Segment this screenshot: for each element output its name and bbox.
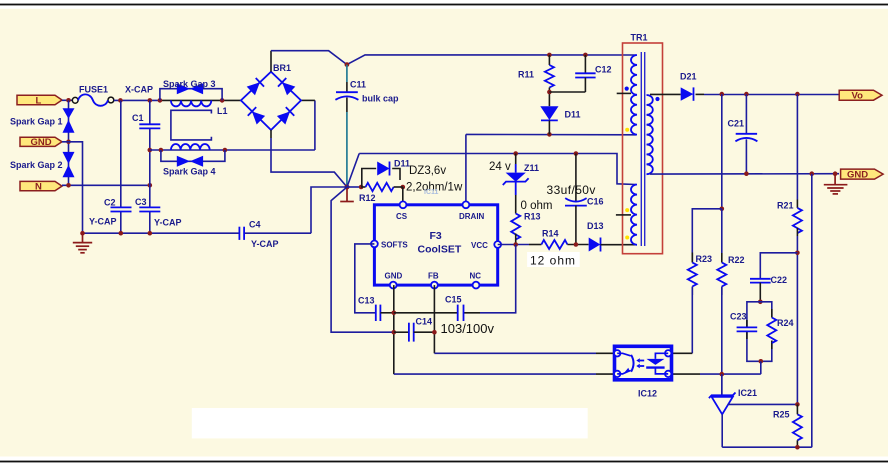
node C12 top: [583, 53, 588, 58]
wire aux rail: [359, 154, 636, 185]
svg-text:Z11: Z11: [524, 163, 539, 173]
TR1 core: [641, 52, 644, 246]
node Vo R21: [795, 92, 800, 97]
ground symbol output: [824, 174, 848, 194]
inductor L1 bottom winding: [171, 144, 210, 150]
diode D11 top: [540, 106, 558, 134]
wire block to opto row: [760, 361, 762, 374]
svg-text:IC21: IC21: [738, 388, 757, 398]
svg-text:R12: R12: [359, 193, 376, 203]
node R11 top: [547, 53, 552, 58]
svg-text:GND: GND: [31, 137, 52, 148]
flag GND (input): [20, 137, 62, 148]
TR1 aux pin dots: [625, 208, 629, 239]
resistor R23: [672, 253, 697, 354]
svg-text:Spark Gap 1: Spark Gap 1: [10, 117, 63, 127]
wire FB to opto row: [434, 352, 614, 354]
node ref-R25: [795, 402, 800, 407]
wire SOFTS loop: [355, 244, 376, 313]
resistor R12: [361, 183, 403, 191]
node D11 bottom: [547, 132, 552, 137]
fuse F1 terminals: [72, 97, 78, 103]
spark gap 4: [177, 156, 203, 167]
svg-text:L1: L1: [217, 106, 228, 116]
node FB-C14: [432, 330, 437, 335]
node N-sparkgap: [66, 183, 71, 188]
transformer TR1 box: [623, 43, 663, 254]
node C1 top: [148, 98, 153, 103]
svg-text:D11: D11: [565, 110, 581, 120]
svg-text:C15: C15: [445, 295, 462, 305]
capacitor C15: [458, 305, 464, 321]
node fuse out: [118, 98, 123, 103]
white content box: [192, 408, 588, 438]
svg-text:CoolSET: CoolSET: [418, 244, 462, 256]
svg-text:CS: CS: [396, 212, 408, 221]
svg-text:24 v: 24 v: [489, 161, 511, 173]
node mosfet star: [345, 185, 350, 190]
capacitor C14: [394, 323, 435, 342]
svg-text:D13: D13: [587, 221, 604, 231]
wire opto bottom row: [672, 373, 761, 375]
node choke top right: [220, 98, 225, 103]
optocoupler IC12: [614, 346, 672, 380]
wire C11 lower lead: [346, 98, 348, 188]
node Vo C21: [744, 92, 749, 97]
svg-text:Spark Gap 2: Spark Gap 2: [10, 160, 63, 170]
wire GND flag link: [62, 142, 83, 233]
svg-text:C12: C12: [595, 65, 612, 75]
wire choke row 150: [150, 149, 315, 151]
svg-text:GND: GND: [385, 272, 403, 281]
svg-text:Spark Gap 3: Spark Gap 3: [163, 79, 216, 89]
svg-text:N: N: [35, 182, 42, 193]
wire fb column: [721, 94, 723, 209]
wire GND pin column: [393, 285, 395, 374]
bridge rectifier BR1: [241, 72, 301, 130]
svg-text:GND: GND: [847, 170, 868, 181]
node sg4 loop left: [159, 148, 164, 153]
resistor R14: [529, 240, 589, 249]
wire L row: [62, 99, 72, 101]
svg-text:C13: C13: [358, 296, 375, 306]
svg-text:C21: C21: [728, 119, 745, 129]
diode D13: [589, 238, 636, 252]
spark gap 3: [177, 83, 203, 94]
wire secondary top: [650, 93, 681, 95]
node ground row: gnd col: [80, 231, 85, 236]
svg-text:R21: R21: [777, 201, 794, 211]
node GND rail drop: [810, 171, 815, 176]
wire fuse to choke: [114, 99, 161, 101]
wire FB pin column: [433, 285, 435, 353]
node R21-C22: [795, 251, 800, 256]
node bottom rail R25: [795, 445, 800, 450]
op-amp U1 : F3 CoolSET controller block: [371, 201, 501, 288]
resistor R25: [793, 404, 802, 447]
node VCC-R13: [513, 242, 518, 247]
node IC21 top: [720, 372, 725, 377]
wire star to C14 branch: [331, 187, 394, 332]
svg-text:bulk cap: bulk cap: [362, 94, 399, 104]
resistor R11: [545, 55, 554, 106]
capacitor C23: [737, 320, 758, 339]
svg-text:103/100v: 103/100v: [441, 321, 495, 336]
wire bottom rail: [722, 446, 812, 448]
svg-text:Y-CAP: Y-CAP: [251, 239, 279, 249]
node C16 top: [574, 151, 579, 156]
wire right drop column: [811, 174, 813, 448]
wire star to drain rail: [347, 154, 359, 188]
node GND-C13: [392, 311, 397, 316]
svg-text:R24: R24: [777, 318, 794, 328]
node GND rail symbol: [833, 171, 838, 176]
node sg4 loop right: [223, 148, 228, 153]
resistor R21: [793, 94, 802, 404]
svg-text:DRAIN: DRAIN: [459, 212, 485, 221]
svg-text:BR1: BR1: [273, 63, 291, 73]
flag GND output: [841, 169, 884, 180]
TR1 secondary winding: [647, 95, 653, 174]
svg-text:Spark Gap 4: Spark Gap 4: [163, 167, 216, 177]
resistor R22: [717, 209, 726, 395]
inductor L1 top winding: [171, 100, 211, 106]
svg-text:0 ohm: 0 ohm: [521, 200, 553, 212]
svg-text:C3: C3: [135, 197, 147, 207]
TR1 primary tap stub: [617, 92, 631, 94]
svg-text:12 ohm: 12 ohm: [530, 254, 576, 268]
wire R23 branch: [692, 209, 722, 263]
shunt regulator IC21: [709, 374, 736, 447]
capacitor C21: [735, 94, 757, 174]
capacitor C1: [139, 124, 160, 128]
svg-text:C2: C2: [104, 198, 116, 208]
capacitor C22: [750, 279, 771, 302]
svg-text:R13: R13: [524, 212, 541, 222]
wire VCC row: [498, 244, 529, 246]
svg-text:DZ3,6v: DZ3,6v: [409, 165, 446, 177]
svg-text:Vo: Vo: [852, 91, 864, 102]
flag L: [17, 95, 62, 106]
node GND-C14: [392, 330, 397, 335]
node L-sparkgap junction: [66, 98, 71, 103]
node GND junction: [66, 140, 71, 145]
svg-text:IC12: IC12: [638, 389, 657, 399]
node N row right: [148, 183, 153, 188]
svg-text:C22: C22: [771, 275, 788, 285]
wire C2 column: [120, 100, 122, 233]
node Z11 top: [513, 151, 518, 156]
wire CS riser: [402, 187, 404, 201]
svg-text:IC11: IC11: [424, 189, 439, 196]
wire bridge right link: [301, 99, 315, 101]
node R12 left: [359, 185, 364, 190]
L1 coupling lines: [171, 110, 212, 140]
svg-text:F3: F3: [430, 230, 442, 242]
svg-text:C14: C14: [416, 317, 433, 327]
wire C1/C3 column: [149, 100, 151, 233]
svg-text:Y-CAP: Y-CAP: [89, 217, 117, 227]
wire C22 top row: [760, 253, 797, 279]
diode D21: [681, 87, 694, 100]
svg-text:D21: D21: [680, 72, 697, 82]
TR1 primary winding: [631, 55, 637, 135]
svg-text:Y-CAP: Y-CAP: [154, 218, 182, 228]
wire C12 bottom row: [549, 91, 585, 93]
TR1 primary polarity dot: [625, 87, 629, 91]
wire top rail to C11: [271, 51, 636, 65]
zener Z11: [503, 154, 529, 214]
svg-text:33uf/50v: 33uf/50v: [547, 183, 596, 197]
flag Vo: [839, 90, 882, 102]
capacitor C12: [575, 55, 595, 92]
resistor R24: [767, 309, 776, 349]
wire snubber row: [466, 133, 636, 135]
spark gap 2: [63, 152, 75, 177]
TR1 aux tap stub: [616, 214, 631, 216]
TR1 aux winding: [631, 185, 637, 245]
wire star left to C4: [311, 187, 347, 233]
wire C23/R24 parallel block: [747, 302, 772, 362]
node block bottom: [759, 359, 764, 364]
svg-text:TR1: TR1: [631, 33, 648, 43]
wire choke row top (black): [161, 99, 241, 101]
spark gap 3 loop: [160, 89, 222, 101]
svg-text:C1: C1: [132, 113, 144, 123]
spark gap 1: [63, 108, 75, 133]
capacitor C4: [239, 227, 244, 240]
ground symbol left: [73, 233, 92, 253]
node choke row150 left: [148, 148, 153, 153]
node Vo fb column: [720, 92, 725, 97]
diode D11 clamp loop: [362, 162, 400, 188]
node GND rail C21: [744, 171, 749, 176]
svg-text:L: L: [36, 96, 42, 107]
node ground row: C3: [148, 231, 153, 236]
wire drain riser: [465, 134, 467, 201]
node ground row: C2: [119, 231, 124, 236]
wire bridge DC+ stub: [270, 51, 272, 72]
svg-text:VCC: VCC: [471, 241, 488, 250]
wire N row: [62, 184, 150, 186]
svg-text:R14: R14: [542, 229, 559, 239]
wire Vo rail: [696, 93, 840, 95]
spark gap 4 loop: [161, 150, 225, 161]
capacitor C2: [111, 207, 132, 211]
TR1 primary pin dot: [625, 128, 629, 132]
svg-text:D11: D11: [394, 159, 410, 169]
capacitor C11: [335, 92, 358, 100]
wire C15 row: [394, 245, 516, 313]
node R12 right: [401, 185, 406, 190]
node R14-C16-D13: [574, 242, 579, 247]
wire bridge AC2 riser: [314, 100, 316, 150]
svg-text:C23: C23: [730, 312, 747, 322]
wire secondary GND rail: [650, 173, 839, 175]
node C11 top: [345, 62, 350, 67]
svg-text:R23: R23: [696, 254, 713, 264]
capacitor C16: [565, 154, 587, 245]
capacitor C13: [376, 305, 394, 321]
svg-text:R22: R22: [728, 255, 745, 265]
capacitor C3: [139, 207, 160, 211]
TR1 secondary polarity dot: [655, 97, 659, 101]
ground row wire: [83, 232, 312, 234]
svg-text:R25: R25: [773, 410, 790, 420]
flag N: [20, 181, 62, 192]
svg-text:FUSE1: FUSE1: [79, 85, 108, 95]
wire spark gap column: [68, 100, 70, 185]
svg-text:X-CAP: X-CAP: [125, 85, 153, 95]
svg-text:C11: C11: [350, 80, 366, 90]
wire GND to opto row: [394, 373, 615, 375]
wire C11 upper lead: [346, 65, 348, 93]
node divider top: [720, 207, 725, 212]
svg-text:R11: R11: [518, 70, 534, 80]
node C22 bottom: [758, 300, 763, 305]
resistor R13: [511, 214, 520, 245]
node R11-D11-C12: [547, 90, 552, 95]
wire star to R12: [347, 186, 361, 188]
svg-text:C4: C4: [249, 220, 261, 230]
node sg3 loop left: [158, 98, 163, 103]
svg-text:C16: C16: [587, 197, 604, 207]
probe marker at star: [340, 187, 354, 202]
white box 12 ohm: [527, 252, 580, 267]
wire bridge DC- path: [271, 130, 347, 187]
fuse FUSE1: [78, 94, 108, 105]
wire IC21 ref row: [728, 403, 798, 405]
svg-text:FB: FB: [428, 272, 439, 281]
svg-text:SOFTS: SOFTS: [381, 241, 408, 250]
svg-text:NC: NC: [470, 272, 482, 281]
